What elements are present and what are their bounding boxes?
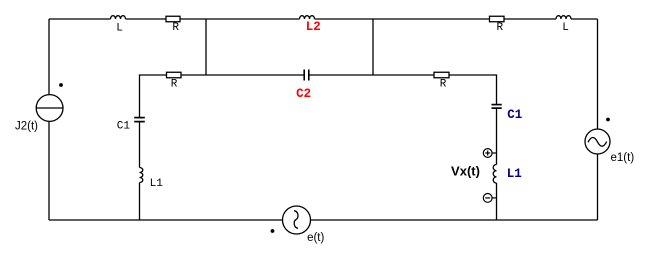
inductor L1 (left branch)	[140, 168, 143, 183]
wire junction vertical right (top to middle)	[372, 19, 374, 75]
capacitor C1 (left branch)	[134, 117, 145, 119]
svg-text:L: L	[116, 23, 123, 35]
wire C2 to R (middle right)	[309, 74, 434, 76]
svg-text:R: R	[172, 22, 179, 34]
wire bottom right	[311, 219, 598, 221]
svg-text:L1: L1	[507, 167, 522, 181]
svg-text:L1: L1	[150, 178, 164, 190]
wire C1 to L1 (right branch)	[496, 108, 498, 164]
resistor R (top right)	[490, 16, 505, 22]
wire middle right corner	[449, 75, 497, 104]
wire junction vertical left (top to middle)	[205, 19, 207, 75]
dot near J2	[59, 83, 63, 87]
wire L to right corner	[571, 18, 598, 20]
svg-text:R: R	[440, 79, 447, 91]
svg-text:e1(t): e1(t)	[611, 152, 635, 164]
wire L to R (top left)	[126, 18, 167, 20]
svg-text:R: R	[496, 22, 503, 34]
wire C1 to L1 (left branch)	[139, 122, 141, 168]
wire middle left corner	[140, 75, 167, 117]
svg-text:Vx(t): Vx(t)	[451, 163, 480, 178]
inductor L (top right)	[556, 16, 571, 19]
inductor L2	[300, 16, 315, 19]
wire L1 to bottom (right branch)	[496, 183, 498, 220]
wire bottom left	[49, 219, 283, 221]
inductor L1 (right branch)	[493, 165, 496, 184]
current source J2	[36, 95, 63, 122]
wire left vertical above source	[48, 19, 50, 95]
svg-text:J2(t): J2(t)	[15, 121, 38, 133]
voltage source e1	[585, 129, 610, 154]
svg-text:C1: C1	[507, 108, 522, 122]
wire R to C2	[181, 74, 304, 76]
svg-text:C1: C1	[117, 121, 131, 133]
wire right vertical below source	[597, 154, 599, 220]
wire R to L (top right)	[504, 18, 556, 20]
svg-text:L: L	[562, 22, 569, 34]
resistor R (middle left)	[167, 72, 182, 78]
plus terminal marker	[483, 149, 492, 158]
dot near e	[271, 229, 275, 233]
wire L2 to R (top right)	[315, 18, 490, 20]
voltage source e	[283, 206, 311, 234]
capacitor C1 (right branch)	[492, 104, 502, 106]
svg-text:C2: C2	[296, 87, 311, 101]
inductor L (top left)	[111, 16, 126, 19]
dot near e1	[606, 118, 610, 122]
svg-text:e(t): e(t)	[307, 232, 324, 244]
resistor R (top left)	[166, 16, 180, 22]
wire L1 to bottom (left branch)	[139, 183, 141, 221]
capacitor C2	[303, 70, 305, 81]
wire top-left horizontal	[49, 18, 111, 20]
minus terminal marker	[483, 194, 492, 203]
wire R to L2	[180, 18, 300, 20]
svg-text:R: R	[171, 79, 178, 91]
resistor R (middle right)	[434, 72, 449, 78]
wire right vertical above source	[597, 19, 599, 129]
wire left vertical below source	[48, 121, 50, 220]
svg-text:L2: L2	[306, 20, 321, 34]
